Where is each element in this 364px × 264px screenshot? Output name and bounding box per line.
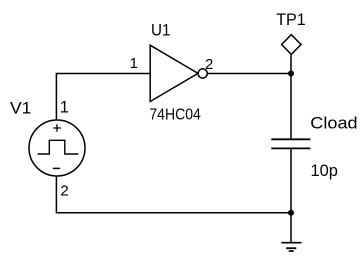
svg-text:2: 2	[60, 183, 68, 200]
wire Cload bottom to node GND	[290, 148, 292, 212]
wire V1 pin1 to U1 input	[56, 74, 150, 121]
junction node OUT	[288, 71, 294, 77]
svg-text:74HC04: 74HC04	[149, 107, 201, 124]
svg-text:2: 2	[205, 56, 213, 73]
test point TP1	[282, 35, 301, 55]
svg-text:TP1: TP1	[276, 11, 306, 29]
svg-text:1: 1	[130, 55, 138, 72]
ground	[281, 243, 301, 251]
junction node GND	[288, 210, 294, 216]
capacitor Cload	[271, 139, 310, 148]
svg-text:Cload: Cload	[310, 114, 357, 132]
inverter U1	[150, 45, 207, 101]
wire TP1 to node OUT	[290, 55, 292, 74]
wire node OUT to Cload top	[290, 74, 292, 140]
svg-text:V1: V1	[10, 100, 31, 118]
voltage source V1	[29, 120, 85, 176]
svg-text:10p: 10p	[311, 162, 338, 180]
wire node GND to ground symbol	[290, 213, 292, 243]
svg-text:U1: U1	[151, 22, 170, 40]
wire U1 output to node OUT	[207, 73, 291, 75]
svg-text:1: 1	[60, 99, 69, 117]
wire V1 pin2 to node GND	[56, 177, 291, 213]
